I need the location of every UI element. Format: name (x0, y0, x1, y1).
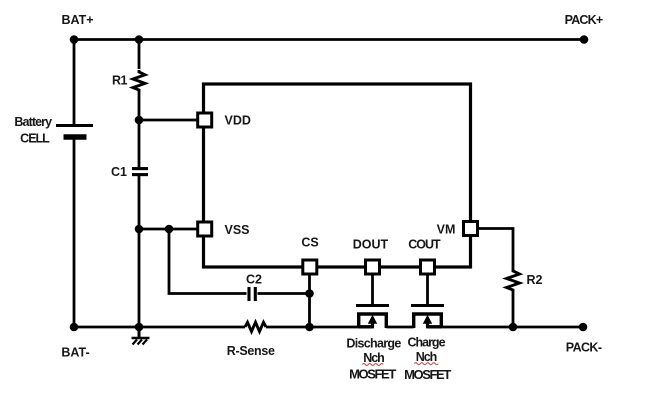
svg-text:PACK+: PACK+ (565, 13, 603, 27)
capacitor C2 (249, 287, 255, 301)
pin COUT square (421, 260, 435, 274)
node BAT+ junction (70, 35, 79, 44)
wire VDD lead (139, 119, 197, 122)
wire bottom rail to discharge FET (266, 326, 374, 329)
svg-text:DOUT: DOUT (353, 238, 389, 252)
svg-text:Charge: Charge (407, 336, 445, 350)
pin VDD square (198, 113, 212, 127)
svg-text:Nch: Nch (363, 351, 384, 365)
svg-text:VSS: VSS (225, 223, 250, 237)
pin CS square (303, 260, 317, 274)
resistor R-Sense (245, 322, 266, 331)
label Battery CELL (14, 115, 52, 146)
wire bottom rail between FETs (386, 326, 413, 329)
label Discharge Nch MOSFET (346, 337, 401, 382)
svg-text:CELL: CELL (20, 132, 50, 146)
svg-text:MOSFET: MOSFET (349, 366, 396, 381)
node PACK+ terminal (580, 35, 589, 44)
wire C2 to CS node (258, 292, 310, 295)
wire DOUT stub to gate (371, 275, 374, 304)
transistor Q1 discharge MOSFET (356, 306, 389, 329)
pin DOUT square (366, 260, 380, 274)
svg-text:BAT-: BAT- (61, 346, 89, 360)
wire battery top lead (73, 40, 76, 126)
node VSS junction (135, 225, 144, 234)
svg-text:CS: CS (301, 236, 318, 250)
node PACK- terminal (579, 323, 588, 332)
svg-text:Battery: Battery (14, 115, 52, 129)
svg-text:PACK-: PACK- (566, 341, 602, 355)
node ground junction (135, 323, 144, 332)
node R1 top junction (135, 35, 144, 44)
battery CELL symbol (56, 126, 93, 138)
svg-text:MOSFET: MOSFET (404, 367, 451, 382)
wire COUT stub to gate (426, 275, 429, 304)
wire VSS lead (139, 228, 197, 231)
label Charge Nch MOSFET (404, 336, 451, 382)
svg-text:R2: R2 (527, 273, 543, 287)
wire CS stub down to rail (308, 275, 311, 327)
node CS junction (305, 289, 314, 298)
resistor R2 (507, 269, 520, 292)
capacitor C1 (132, 169, 148, 175)
wire R2 to rail (512, 292, 515, 327)
wire bottom rail right segment (426, 326, 583, 329)
node CS rail junction (305, 323, 314, 332)
svg-text:VDD: VDD (225, 114, 251, 128)
resistor R1 (133, 70, 145, 92)
svg-text:COUT: COUT (408, 238, 441, 252)
op-amp U1 IC body (204, 84, 471, 267)
transistor Q2 charge MOSFET (411, 306, 444, 329)
wire bottom rail left segment (74, 326, 245, 329)
node C2 branch junction (165, 225, 174, 234)
wire VM to R2 (479, 229, 514, 270)
svg-text:VM: VM (437, 223, 456, 237)
svg-text:Discharge: Discharge (346, 337, 401, 351)
svg-text:Nch: Nch (416, 350, 437, 364)
wire R1 to C1 (138, 92, 141, 167)
node BAT- terminal (70, 323, 79, 332)
svg-text:R-Sense: R-Sense (227, 344, 275, 358)
svg-text:C1: C1 (111, 165, 127, 179)
wire R1 top lead (138, 40, 141, 70)
wire battery bottom lead to BAT- (73, 137, 76, 327)
wire C2 branch (169, 229, 247, 294)
node R2 rail junction (509, 323, 518, 332)
pin VSS square (198, 222, 212, 236)
wire top rail BAT+ to PACK+ (74, 38, 584, 41)
ground symbol (132, 327, 150, 345)
pin VM square (464, 222, 478, 236)
svg-text:R1: R1 (112, 74, 128, 88)
svg-text:BAT+: BAT+ (61, 13, 93, 27)
node VDD junction (135, 116, 144, 125)
svg-text:C2: C2 (246, 273, 262, 287)
wire C1 to bottom rail (138, 176, 141, 327)
